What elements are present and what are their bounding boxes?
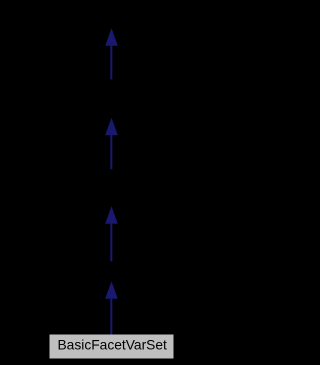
inheritance arrow 3 <box>105 206 118 261</box>
svg-text:BasicFacetVarSet: BasicFacetVarSet <box>57 338 167 353</box>
class box BasicFacetVarSet <box>50 335 174 359</box>
inheritance arrow 2 <box>105 118 118 170</box>
inheritance arrow 1 (topmost) <box>105 28 118 79</box>
inheritance arrow 4 (into BasicFacetVarSet box) <box>105 281 118 336</box>
